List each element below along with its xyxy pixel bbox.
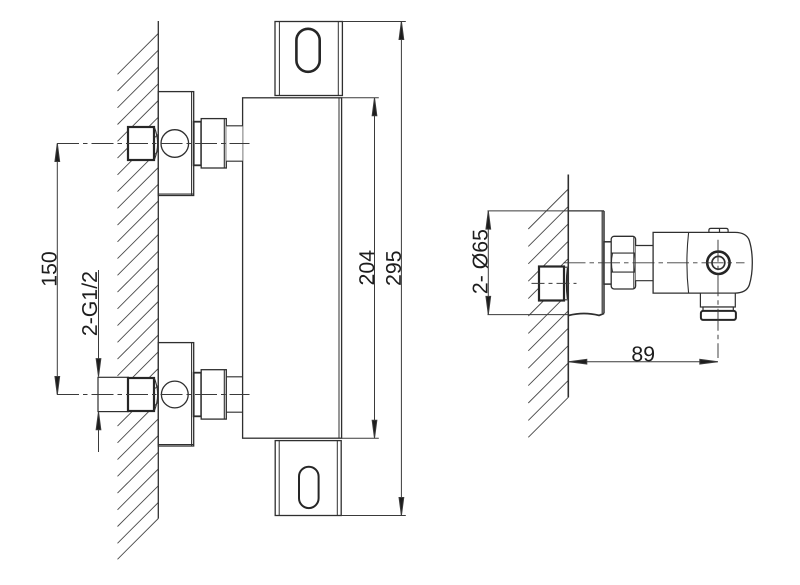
dimension 89 <box>569 359 718 364</box>
top inlet: hex nut on wall <box>128 127 158 160</box>
bottom inlet: neck to body <box>226 377 242 412</box>
centerline top inlet <box>57 143 250 145</box>
centerline bottom inlet <box>57 394 250 396</box>
bottom inlet: connector ring <box>194 373 202 417</box>
outlet ring <box>701 311 736 320</box>
bottom inlet: hex nut on wall <box>128 378 158 411</box>
supply stub behind wall <box>539 267 568 301</box>
dimension 204 <box>342 98 379 438</box>
wall hatching left view <box>118 34 159 560</box>
dimension 2-G1/2 <box>96 270 101 452</box>
top inlet: ball joint <box>161 130 189 158</box>
bottom inlet: ball joint <box>161 381 188 408</box>
top bracket slot <box>296 29 319 72</box>
knob outer ring <box>707 252 729 274</box>
top inlet: wall plate escutcheon <box>158 92 193 196</box>
centerline outlet vertical <box>717 240 719 358</box>
dimension 150 <box>55 144 60 395</box>
escutcheon plate side view <box>568 211 604 316</box>
connector ring plate-to-nut <box>604 242 612 284</box>
centerline supply stub <box>532 282 577 284</box>
outlet step 1 <box>700 293 735 307</box>
top inlet: neck to body <box>226 126 242 161</box>
wall line right view <box>567 175 569 398</box>
outlet step 2 <box>703 307 733 311</box>
temperature buttons on top of body <box>709 228 728 232</box>
bottom inlet: wall plate escutcheon <box>158 343 193 446</box>
wall line left view <box>157 21 159 519</box>
bottom mounting bracket with slot <box>275 441 341 516</box>
wall hatching right view <box>528 189 568 437</box>
dimension 295 <box>341 22 406 516</box>
top inlet: union nut <box>201 119 226 168</box>
neck nut-to-body <box>636 246 654 281</box>
knob inner circle <box>712 256 725 269</box>
dimension 2-diam65 <box>486 211 568 315</box>
centerline valve axis <box>564 262 745 264</box>
valve body front view <box>243 98 342 438</box>
valve body side view <box>653 232 752 293</box>
wall line right view (redraw over components) <box>567 175 569 398</box>
top inlet: connector ring <box>194 122 202 166</box>
coupling hex nut side view <box>611 236 635 289</box>
bottom inlet: G1/2 pipe stub <box>98 377 128 411</box>
bottom inlet: union nut <box>201 370 226 419</box>
top mounting bracket with slot <box>275 22 342 96</box>
bottom bracket slot <box>299 467 319 508</box>
